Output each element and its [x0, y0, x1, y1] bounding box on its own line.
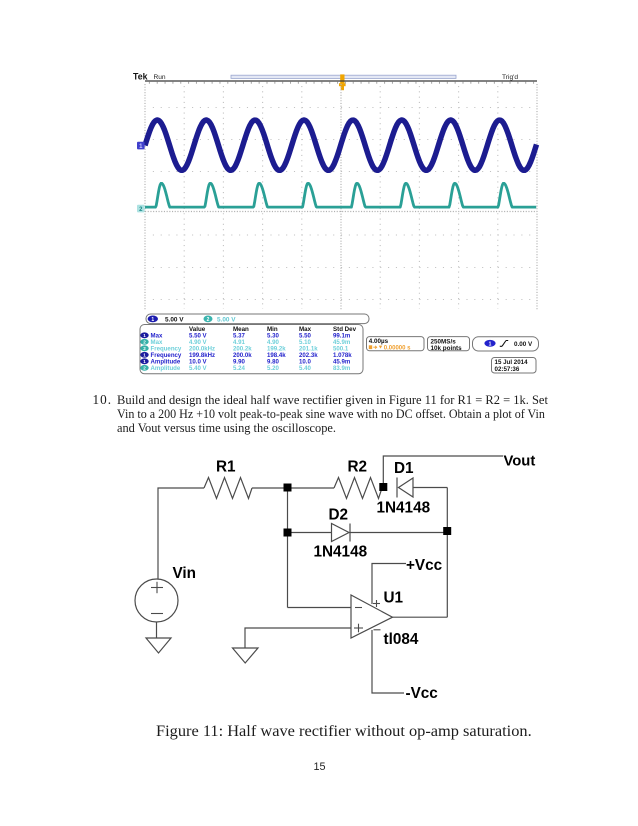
svg-text:Vin: Vin [173, 565, 197, 582]
channel 1 marker [137, 142, 145, 150]
channel 2 rectified trace [145, 183, 536, 207]
label U1 [384, 590, 404, 607]
svg-text:+Vcc: +Vcc [406, 557, 443, 574]
record view bar [231, 75, 456, 78]
label D1 [394, 460, 414, 477]
svg-text:-Vcc: -Vcc [406, 685, 439, 702]
ground Vin [146, 638, 171, 653]
label D2 [329, 507, 349, 524]
channel 1 sine trace [145, 120, 537, 170]
svg-text:5.40: 5.40 [299, 365, 311, 372]
wire noninverting input [245, 628, 351, 648]
label Vin [173, 565, 197, 582]
svg-text:1: 1 [489, 341, 492, 347]
ground op-amp [233, 648, 259, 663]
svg-text:2: 2 [143, 346, 146, 351]
diode D1 [397, 478, 447, 498]
value tl084 [384, 631, 419, 648]
voltage source Vin [135, 579, 178, 622]
svg-text:1: 1 [143, 359, 146, 364]
date time box [492, 358, 537, 374]
measurement table [140, 325, 363, 374]
channel 2 marker [137, 205, 145, 213]
svg-text:1: 1 [151, 317, 154, 323]
svg-text:2: 2 [143, 365, 146, 370]
oscilloscope screenshot [133, 72, 539, 374]
svg-text:2: 2 [207, 317, 210, 323]
trigger T marker [339, 83, 346, 90]
graticule grid [145, 84, 537, 310]
Tek logo [133, 72, 148, 82]
svg-text:Run: Run [154, 74, 166, 81]
diode D2 [332, 524, 444, 542]
label R2 [348, 459, 368, 476]
svg-text:0.00 V: 0.00 V [514, 341, 533, 348]
svg-text:02:57:36: 02:57:36 [495, 366, 520, 373]
resistor R2 [334, 478, 382, 499]
node junction R2-D1 [379, 483, 387, 491]
wire output [393, 616, 448, 618]
svg-text:tl084: tl084 [384, 631, 419, 648]
svg-text:4.00µs: 4.00µs [369, 338, 389, 345]
svg-text:Trig'd: Trig'd [502, 74, 518, 81]
svg-text:1N4148: 1N4148 [314, 544, 368, 561]
trigger readout box [473, 337, 539, 351]
svg-text:U1: U1 [384, 590, 404, 607]
wire inverting input [288, 607, 352, 609]
wire node A down [287, 491, 289, 608]
wire node A to R2 [291, 487, 334, 489]
svg-text:5.20: 5.20 [267, 365, 279, 372]
label Vout [504, 454, 536, 470]
sample rate box [428, 337, 470, 352]
svg-text:83.9m: 83.9m [333, 365, 351, 372]
label +Vcc [406, 557, 443, 574]
svg-text:10k points: 10k points [431, 345, 463, 352]
svg-text:R2: R2 [348, 459, 368, 476]
wire node B to D2 [291, 532, 332, 534]
svg-text:D1: D1 [394, 460, 414, 477]
circuit schematic [135, 456, 503, 693]
svg-text:1: 1 [143, 352, 146, 357]
svg-text:5.00 V: 5.00 V [165, 316, 184, 323]
wire Vin to ground [156, 622, 158, 638]
svg-text:5.00 V: 5.00 V [217, 316, 236, 323]
node A junction [284, 484, 292, 492]
page number [314, 761, 326, 773]
svg-text:5.24: 5.24 [233, 365, 245, 372]
value 1N4148 D1 [377, 500, 431, 517]
op-amp V+ pin [372, 564, 406, 608]
value 1N4148 D2 [314, 544, 368, 561]
node B junction [284, 529, 292, 537]
Trig'd status [502, 74, 518, 81]
paragraph item 10 [93, 393, 112, 407]
svg-text:0.00000 s: 0.00000 s [384, 346, 411, 352]
label -Vcc [406, 685, 439, 702]
svg-text:Tek: Tek [133, 72, 148, 82]
graticule top edge [145, 81, 537, 83]
trigger position flag [340, 74, 344, 83]
svg-text:D2: D2 [329, 507, 349, 524]
op-amp V- pin [372, 630, 404, 693]
horizontal scale box [367, 337, 425, 352]
svg-text:Amplitude: Amplitude [151, 365, 181, 372]
svg-text:R1: R1 [216, 459, 236, 476]
svg-text:2: 2 [143, 339, 146, 344]
wire R1 to node A [252, 487, 284, 489]
Run status [154, 74, 166, 81]
wire Vout vertical [383, 456, 503, 484]
figure caption [156, 722, 532, 741]
svg-text:5.40 V: 5.40 V [189, 365, 208, 372]
op-amp U1 [351, 595, 393, 638]
channel readout bar [146, 314, 369, 324]
svg-text:1: 1 [143, 333, 146, 338]
label R1 [216, 459, 236, 476]
svg-text:1N4148: 1N4148 [377, 500, 431, 517]
resistor R1 [204, 478, 252, 499]
node junction D2 right [443, 527, 451, 535]
svg-text:Vout: Vout [504, 454, 536, 470]
wire right vertical [446, 488, 448, 618]
wire Vin top to R1 [158, 488, 204, 580]
